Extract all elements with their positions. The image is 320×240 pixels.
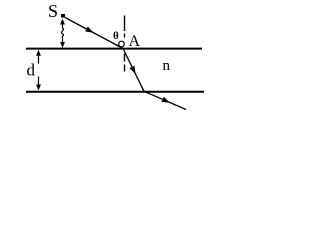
svg-text:A: A: [129, 33, 141, 50]
svg-text:n: n: [163, 58, 171, 74]
svg-text:d: d: [27, 61, 36, 80]
svg-text:θ: θ: [113, 30, 119, 42]
svg-text:S: S: [48, 1, 58, 21]
